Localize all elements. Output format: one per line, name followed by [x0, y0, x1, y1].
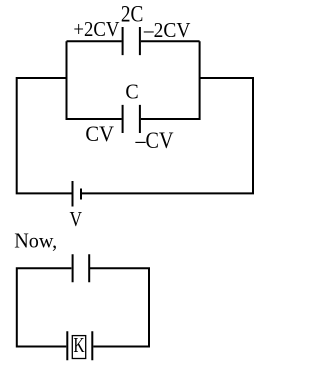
svg-text:K: K: [73, 333, 85, 357]
svg-text:2C: 2C: [121, 1, 143, 27]
svg-text:C: C: [125, 80, 138, 104]
svg-text:+2CV: +2CV: [73, 17, 119, 41]
svg-text:V: V: [70, 207, 83, 231]
svg-text:CV: CV: [85, 121, 114, 146]
svg-text:–CV: –CV: [135, 128, 174, 154]
svg-text:Now,: Now,: [14, 229, 57, 253]
svg-text:–2CV: –2CV: [143, 18, 191, 42]
